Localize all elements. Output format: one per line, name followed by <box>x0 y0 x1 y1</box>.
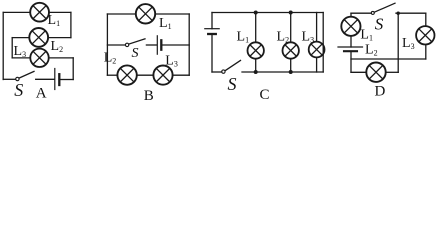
svg-text:B: B <box>144 88 154 103</box>
svg-text:S: S <box>14 80 23 100</box>
svg-text:D: D <box>375 84 386 100</box>
svg-text:A: A <box>36 86 47 102</box>
svg-text:C: C <box>260 87 270 103</box>
svg-text:S: S <box>375 14 384 33</box>
svg-text:S: S <box>228 74 237 94</box>
svg-text:S: S <box>132 46 139 61</box>
